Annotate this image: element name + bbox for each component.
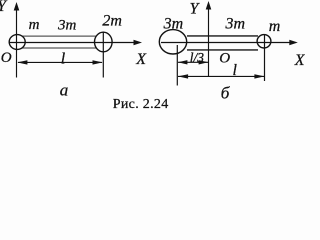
X axis b <box>161 42 292 44</box>
dimension line l a <box>18 61 102 63</box>
X axis b arrowhead <box>289 40 298 46</box>
mass m circle b <box>257 35 271 48</box>
extension line below 2m circle a <box>102 32 104 78</box>
extension line through m circle b <box>264 34 266 81</box>
rod a bottom edge <box>22 47 97 49</box>
X axis a arrowhead <box>134 40 143 46</box>
rod b top edge <box>187 35 258 37</box>
svg-text:O: O <box>1 50 12 66</box>
svg-text:Рис. 2.24: Рис. 2.24 <box>113 97 169 112</box>
rod a top edge <box>22 35 97 37</box>
svg-text:m: m <box>269 18 281 35</box>
svg-text:3m: 3m <box>225 16 246 33</box>
svg-text:3m: 3m <box>57 18 77 34</box>
svg-text:m: m <box>29 17 40 33</box>
dimension arrow right a <box>93 60 103 64</box>
dimension l arrow left b <box>178 74 188 78</box>
svg-text:l/3: l/3 <box>190 50 205 65</box>
dimension l/3 arrow right b <box>199 60 209 64</box>
svg-text:2m: 2m <box>102 13 122 30</box>
svg-text:а: а <box>60 80 69 99</box>
svg-text:3m: 3m <box>163 16 184 33</box>
dimension l arrow right b <box>254 74 264 78</box>
Y axis a arrowhead <box>14 2 20 11</box>
dimension arrow left a <box>17 60 27 64</box>
mass m circle at origin a <box>9 35 25 50</box>
svg-text:X: X <box>135 51 147 68</box>
svg-text:X: X <box>294 52 305 69</box>
dimension l/3 arrow left b <box>178 60 188 64</box>
Y axis a <box>16 9 18 78</box>
Y axis b arrowhead <box>206 1 212 10</box>
svg-text:l: l <box>61 50 66 67</box>
svg-text:O: O <box>219 50 230 66</box>
X axis a <box>9 42 136 44</box>
svg-text:б: б <box>221 83 230 102</box>
Y axis b <box>208 8 210 77</box>
mass 3m circle b <box>159 30 186 54</box>
extension line below 3m circle b <box>176 45 178 86</box>
rod b bottom edge <box>187 49 258 51</box>
svg-text:l: l <box>233 62 238 79</box>
dimension line l/3 b <box>178 61 208 63</box>
dimension line l b <box>178 75 264 77</box>
mass 2m circle a <box>95 32 113 52</box>
